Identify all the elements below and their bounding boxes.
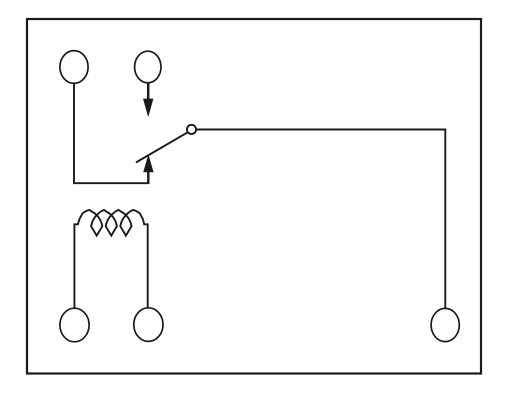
wire from T1 down, right, up to armature arrow bbox=[74, 84, 149, 184]
switch lever bbox=[136, 133, 187, 163]
wire from pivot to right, down to T5 bbox=[196, 130, 445, 309]
armature arrow (up, touching lever) bbox=[143, 154, 153, 172]
terminal T1 (top left) bbox=[60, 51, 88, 84]
movement arrow (down) bbox=[143, 99, 153, 118]
terminal T5 (bottom right) bbox=[431, 308, 459, 341]
terminal T4 (bottom middle, coil return) bbox=[134, 308, 163, 342]
lead from T2 down bbox=[147, 83, 150, 100]
coil L1 (looped inductor) bbox=[74, 210, 147, 308]
terminal T3 (bottom left) bbox=[60, 308, 89, 342]
switch pivot contact (open circle) bbox=[187, 125, 196, 134]
armature arrow shaft bbox=[147, 169, 149, 184]
terminal T2 (top middle) bbox=[135, 51, 161, 83]
